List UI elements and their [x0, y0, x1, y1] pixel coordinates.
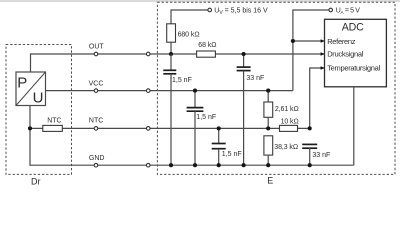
arrow into ADC Drucksignal	[321, 52, 325, 56]
svg-text:P: P	[17, 75, 27, 92]
svg-text:ADC: ADC	[342, 21, 364, 33]
svg-text:UA = 5 V: UA = 5 V	[336, 7, 361, 15]
svg-text:680 kΩ: 680 kΩ	[178, 31, 200, 38]
junction R3/NTC	[266, 126, 270, 130]
enclosure E (ECU dashed box)	[157, 2, 395, 174]
wire VCC line	[46, 90, 293, 92]
svg-text:NTC: NTC	[89, 117, 103, 124]
capacitor C5 33 nF	[302, 144, 330, 165]
resistor R2 68 kOhm	[197, 42, 217, 57]
wire Referenz line	[293, 40, 325, 42]
junction C2/GND	[193, 163, 197, 167]
resistor R1 680 kOhm	[167, 24, 200, 42]
junction C3/NTC	[217, 126, 221, 130]
wire GND line	[30, 164, 354, 166]
svg-text:Drucksignal: Drucksignal	[327, 50, 364, 59]
junction 10k/33nF/Temp	[308, 126, 312, 130]
svg-text:33 nF: 33 nF	[312, 152, 330, 159]
svg-text:VCC: VCC	[89, 80, 104, 87]
capacitor C3 1,5 nF	[212, 128, 242, 165]
svg-text:E: E	[267, 176, 273, 186]
svg-text:GND: GND	[89, 155, 105, 162]
junction C1/GND	[169, 163, 173, 167]
terminal circles sensor side	[94, 52, 98, 167]
wire 680k to OUT	[170, 42, 172, 54]
arrow into ADC Referenz	[321, 39, 325, 43]
resistor NTC	[43, 117, 63, 131]
svg-text:NTC: NTC	[47, 117, 61, 124]
terminal circles ECU side	[146, 52, 150, 167]
wire P/U bottom pin down to GND	[29, 106, 31, 166]
junction C4/OUT	[242, 52, 246, 56]
terminal Uv	[208, 8, 212, 12]
resistor R3 2,61 kOhm	[264, 91, 299, 129]
terminal UA	[329, 8, 333, 12]
ADC box U2	[325, 19, 387, 87]
capacitor C2 1,5 nF	[187, 91, 217, 166]
page rule line top	[0, 0, 400, 2]
svg-text:10 kΩ: 10 kΩ	[281, 118, 299, 125]
sensor U1 P/U box	[16, 72, 46, 106]
svg-text:OUT: OUT	[89, 44, 105, 51]
junction C4/GND	[242, 163, 246, 167]
junction C3/GND	[217, 163, 221, 167]
junction P/U-NTC	[28, 126, 32, 130]
wire P/U top pin to OUT	[30, 53, 32, 72]
svg-text:1,5 nF: 1,5 nF	[172, 77, 192, 84]
resistor R4 10 kOhm	[280, 118, 299, 131]
wire Uv supply rail	[171, 10, 208, 24]
svg-text:Dr: Dr	[31, 177, 41, 187]
svg-text:Temperatursignal: Temperatursignal	[327, 63, 380, 72]
resistor R5 38,3 kOhm	[264, 136, 298, 165]
svg-text:UV = 5,5 bis 16 V: UV = 5,5 bis 16 V	[214, 8, 268, 17]
svg-text:2,61 kΩ: 2,61 kΩ	[275, 106, 299, 113]
junction R5/GND	[266, 163, 270, 167]
wire ADC ground pin	[353, 87, 355, 165]
junction Referenz	[291, 39, 295, 43]
wire Temperatursignal	[310, 68, 325, 128]
junction 680k/OUT	[169, 52, 173, 56]
capacitor C1 1,5 nF	[163, 54, 192, 165]
arrow into ADC Temperatursignal	[321, 66, 325, 70]
junction R3/VCC	[266, 89, 270, 93]
svg-text:33 nF: 33 nF	[246, 75, 264, 82]
wire 5V rail and down to VCC	[293, 10, 329, 91]
enclosure Dr (pressure sensor dashed box)	[6, 45, 72, 175]
junction C2/VCC	[193, 89, 197, 93]
svg-text:68 kΩ: 68 kΩ	[198, 42, 216, 49]
wire OUT line	[31, 53, 325, 55]
wire NTC line	[30, 127, 310, 129]
svg-text:38,3 kΩ: 38,3 kΩ	[274, 144, 298, 151]
svg-text:Referenz: Referenz	[327, 37, 356, 46]
svg-text:1,5 nF: 1,5 nF	[222, 151, 242, 158]
capacitor C4 33 nF	[237, 54, 265, 165]
junction C5/GND	[308, 163, 312, 167]
svg-text:U: U	[33, 89, 44, 106]
svg-text:1,5 nF: 1,5 nF	[196, 114, 216, 121]
